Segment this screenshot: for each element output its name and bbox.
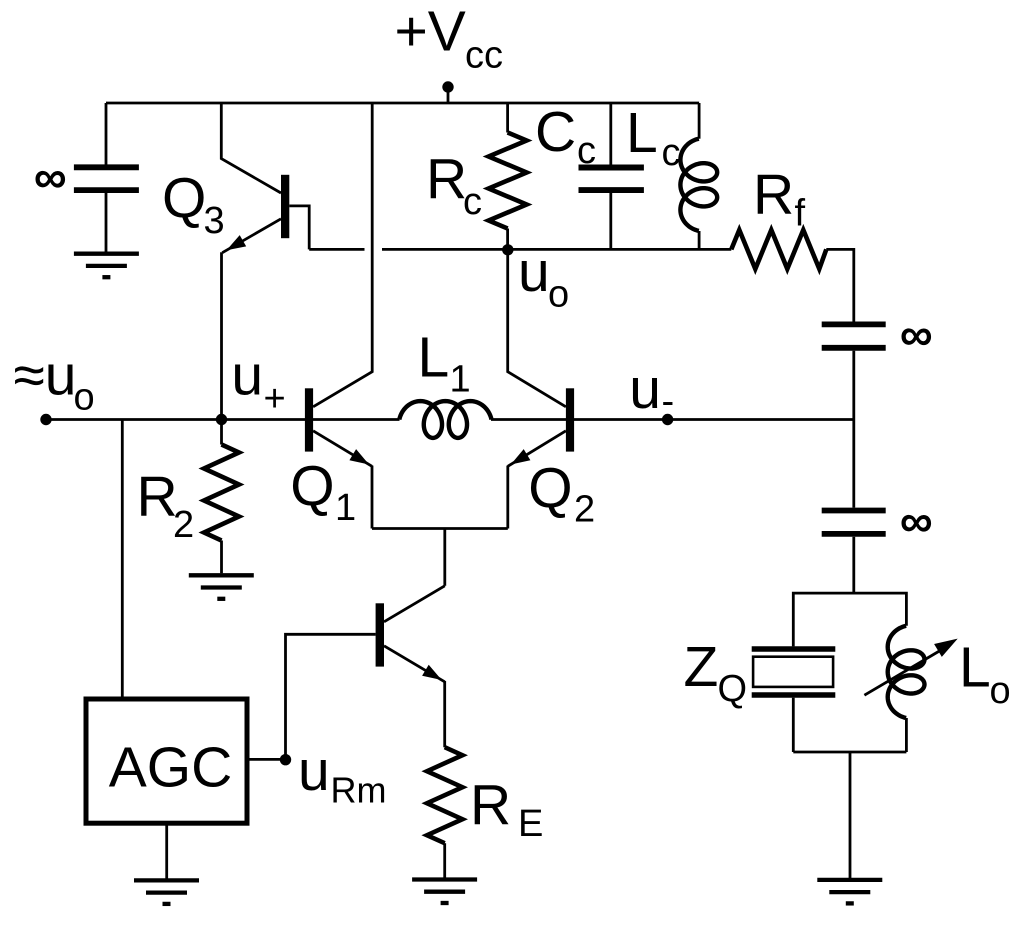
svg-text:AGC: AGC — [109, 736, 233, 800]
crystal ZQ bottom plate — [752, 692, 836, 697]
svg-text:c: c — [662, 132, 681, 174]
svg-text:o: o — [548, 274, 569, 316]
svg-text:o: o — [74, 377, 95, 419]
wire Rc top lead — [506, 103, 509, 133]
wire AGC output — [247, 758, 286, 761]
inductor Lo — [888, 626, 925, 718]
wire Q1 emitter down — [371, 466, 374, 529]
wire R2 top lead — [220, 420, 223, 445]
svg-text:f: f — [795, 193, 806, 235]
wire R2 bottom lead — [220, 541, 223, 574]
wire Lc top lead — [698, 103, 701, 139]
wire Cc bottom lead — [609, 193, 612, 249]
capacitor infinity (upper right) — [822, 321, 886, 327]
ground (left bypass) — [74, 252, 139, 256]
svg-text:E: E — [518, 803, 543, 845]
resistor Rf — [731, 230, 826, 269]
resistor RE — [427, 747, 462, 843]
variable arrow Lo — [864, 647, 947, 696]
crystal ZQ body — [753, 657, 833, 687]
svg-text:3: 3 — [204, 200, 225, 242]
svg-text:∞: ∞ — [900, 308, 933, 360]
svg-text:R: R — [753, 163, 794, 227]
node input — [40, 414, 51, 425]
ground (right) — [817, 878, 882, 882]
svg-text:∞: ∞ — [34, 151, 67, 203]
resistor R2 — [204, 445, 239, 541]
svg-text:2: 2 — [173, 504, 194, 546]
transistor Q4 base bar — [376, 603, 384, 666]
wire Lo bottom lead — [905, 718, 908, 752]
svg-text:+V: +V — [395, 0, 466, 64]
transistor Q3 emitter — [222, 219, 281, 253]
ground (AGC) — [134, 878, 199, 882]
capacitor Cc — [579, 165, 644, 171]
wire Q3 collector — [221, 103, 281, 193]
AGC box — [86, 699, 247, 823]
svg-text:u: u — [298, 739, 330, 803]
wire right rail to resonator — [852, 537, 855, 593]
ground (R2) — [189, 573, 254, 577]
wire Q4 emitter down — [443, 681, 446, 747]
inductor L1 — [399, 401, 491, 438]
svg-text:R: R — [137, 465, 178, 529]
svg-text:-: - — [662, 381, 675, 423]
inductor Lc — [680, 139, 717, 231]
wire Q4 collector — [384, 586, 445, 622]
wire Q1 collector — [313, 103, 372, 407]
wire Q2 emitter down — [506, 466, 509, 529]
emitter arrow Q2 — [511, 449, 531, 464]
node u- — [662, 414, 673, 425]
wire AGC sense drop — [121, 420, 124, 700]
wire bypass cap lead — [105, 103, 108, 165]
transistor Q2 emitter — [508, 431, 566, 467]
svg-text:L: L — [959, 636, 991, 700]
transistor Q1 emitter — [313, 431, 372, 467]
svg-text:u: u — [231, 344, 263, 408]
transistor Q2 base bar — [566, 388, 574, 451]
svg-text:Rm: Rm — [331, 770, 387, 811]
wire Rc bottom lead — [506, 229, 509, 251]
wire collector node rail right — [382, 248, 731, 251]
wire Vcc rail — [106, 102, 699, 105]
node uRm — [280, 754, 291, 765]
svg-text:∞: ∞ — [900, 494, 933, 546]
emitter arrow Q1 — [349, 449, 369, 464]
svg-text:cc: cc — [465, 35, 503, 77]
wire tank bottom — [793, 751, 906, 754]
svg-text:R: R — [470, 773, 511, 837]
wire tank to ground — [849, 752, 852, 878]
svg-text:Q: Q — [528, 457, 572, 521]
transistor Q1 base bar — [305, 388, 313, 451]
wire RE bottom lead — [443, 843, 446, 878]
svg-text:Q: Q — [162, 167, 206, 231]
transistor Q4 emitter — [384, 646, 445, 682]
svg-text:Q: Q — [290, 455, 334, 519]
svg-text:≈u: ≈u — [14, 344, 77, 408]
svg-text:c: c — [577, 130, 596, 172]
svg-text:C: C — [535, 100, 576, 164]
wire Q4 base — [286, 634, 376, 759]
wire tank top — [793, 593, 906, 646]
svg-text:2: 2 — [574, 489, 595, 531]
node Vcc — [442, 81, 453, 92]
emitter arrow Q4 — [422, 665, 442, 680]
wire right rail mid — [852, 351, 855, 508]
emitter arrow Q3 — [227, 235, 247, 250]
svg-text:R: R — [426, 147, 467, 211]
wire Q3 base stub — [289, 206, 309, 250]
wire base line left — [46, 418, 400, 421]
crystal ZQ top plate — [752, 646, 836, 651]
wire emitter rail — [372, 527, 508, 530]
transistor Q3 base bar — [281, 175, 289, 238]
wire bypass cap to ground — [105, 193, 108, 252]
ground (RE) — [412, 877, 477, 881]
svg-text:c: c — [463, 181, 482, 223]
node u+ — [216, 414, 227, 425]
wire crystal bottom lead — [792, 698, 795, 752]
svg-text:o: o — [990, 670, 1011, 712]
wire Rf to right rail — [826, 249, 854, 321]
wire Lc bottom lead — [698, 231, 701, 249]
wire base line right — [491, 418, 854, 421]
wire tail — [443, 529, 446, 586]
svg-text:1: 1 — [450, 359, 471, 401]
svg-text:Q: Q — [718, 668, 748, 710]
svg-text:L: L — [626, 101, 658, 165]
wire collector node rail left — [309, 248, 364, 251]
wire Cc top lead — [609, 103, 612, 165]
svg-text:u: u — [518, 240, 550, 304]
svg-text:L: L — [418, 325, 450, 389]
wire AGC ground lead — [165, 823, 168, 878]
resistor Rc — [489, 133, 527, 229]
svg-text:Z: Z — [684, 635, 719, 699]
capacitor infinity (left bypass) — [74, 164, 139, 170]
wire Q3 emitter to u+ — [220, 252, 223, 419]
capacitor infinity (lower right) — [822, 508, 886, 514]
svg-text:1: 1 — [335, 487, 356, 529]
svg-text:u: u — [629, 357, 661, 421]
node uo — [502, 244, 513, 255]
svg-text:+: + — [264, 378, 286, 420]
wire Q2 collector — [508, 250, 566, 407]
